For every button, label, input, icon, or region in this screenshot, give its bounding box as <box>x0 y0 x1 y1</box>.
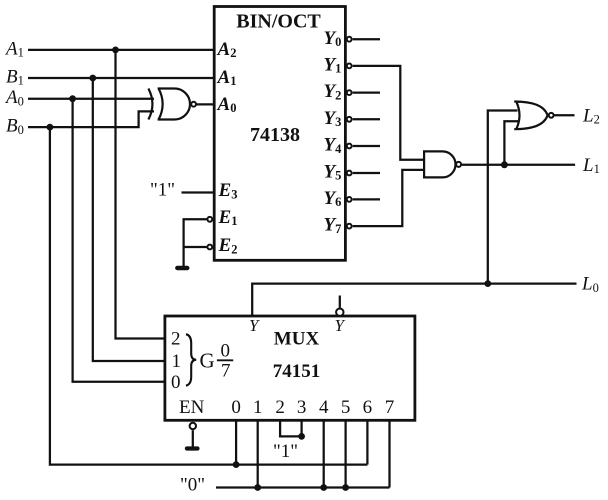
svg-text:EN: EN <box>179 397 205 418</box>
wire B0 column to bottom data bus <box>50 127 368 465</box>
wire zero bus <box>216 486 390 488</box>
svg-text:L2: L2 <box>582 106 600 127</box>
wire A1 to 74138 pin A2 <box>28 49 214 51</box>
wire NOR input 2 from L1 <box>504 121 518 165</box>
svg-text:Y7: Y7 <box>324 215 342 236</box>
bubble pin Y7 <box>347 224 352 229</box>
wire "1" to pin E3 <box>182 191 215 193</box>
XNOR output bubble <box>191 102 196 107</box>
svg-text:3: 3 <box>297 397 307 418</box>
bubble pin Y1 <box>347 64 352 69</box>
XNOR gate U2 <box>148 89 190 120</box>
wire Y4 stub <box>353 145 380 147</box>
wire EN to ground <box>192 430 194 446</box>
bubble pin Y4 <box>347 144 352 149</box>
wire A0 to XNOR input 1 <box>28 98 154 100</box>
svg-text:Y3: Y3 <box>324 108 342 129</box>
svg-text:L0: L0 <box>581 274 599 295</box>
NOR output bubble <box>549 113 554 118</box>
junction D4 on zero bus <box>320 484 327 491</box>
svg-text:2: 2 <box>275 397 285 418</box>
svg-text:Y: Y <box>249 316 260 335</box>
wire pin D6 to B0 bus <box>366 420 368 464</box>
wire Y inverted stub <box>339 296 341 308</box>
svg-text:Y4: Y4 <box>324 135 343 156</box>
svg-text:"1": "1" <box>150 180 175 201</box>
junction D1 on zero bus <box>254 484 261 491</box>
svg-text:"0": "0" <box>180 475 205 496</box>
bubble pin Y0 <box>347 37 352 42</box>
wire pin D1 to zero bus <box>257 420 259 487</box>
wire XNOR output to 74138 pin A0 <box>196 103 214 105</box>
wire pin D2 D3 tie to "1" <box>280 420 302 436</box>
IC U1 74138 box <box>214 7 345 261</box>
junction A0 column <box>69 95 76 102</box>
svg-text:B0: B0 <box>6 116 24 137</box>
wire B0 to XNOR input 2 <box>28 111 154 127</box>
svg-text:7: 7 <box>385 397 395 418</box>
junction B1 column <box>89 75 96 82</box>
wire L0 line from MUX Y output <box>252 284 576 316</box>
svg-text:Y5: Y5 <box>324 161 342 182</box>
svg-text:E3: E3 <box>218 180 238 201</box>
svg-text:4: 4 <box>319 397 329 418</box>
svg-text:Y: Y <box>335 316 346 335</box>
bubble pin Y5 <box>347 171 352 176</box>
wire Y1 to NAND input 1 <box>353 66 424 160</box>
svg-text:Y0: Y0 <box>324 28 342 49</box>
wire NOR input 1 from L0 line <box>488 111 518 284</box>
wire B1 to 74138 pin A1 <box>28 77 214 79</box>
ground below E1 E2 <box>177 266 187 270</box>
svg-text:E2: E2 <box>218 235 238 256</box>
brace for G select group <box>186 334 196 386</box>
svg-text:0: 0 <box>171 372 181 393</box>
svg-text:74138: 74138 <box>250 124 300 146</box>
svg-text:G: G <box>200 349 215 373</box>
wire Y6 stub <box>353 198 380 200</box>
svg-text:5: 5 <box>341 397 351 418</box>
svg-text:7: 7 <box>221 361 231 382</box>
svg-text:B1: B1 <box>6 66 24 87</box>
svg-text:L1: L1 <box>582 155 600 176</box>
svg-text:Y1: Y1 <box>324 55 342 76</box>
wire A1 column to MUX select 2 <box>116 50 165 339</box>
junction D0 on B0 bus <box>233 461 240 468</box>
wire NAND output L1 line <box>462 164 575 166</box>
bubble pin EN <box>190 423 196 429</box>
svg-text:6: 6 <box>363 397 373 418</box>
ground below EN <box>187 446 198 450</box>
svg-text:A2: A2 <box>217 39 237 60</box>
svg-text:BIN/OCT: BIN/OCT <box>236 10 321 32</box>
svg-text:"1": "1" <box>273 441 298 462</box>
bubble pin Y6 <box>347 197 352 202</box>
NAND gate U3 <box>424 151 455 177</box>
wire A0 column to MUX select 0 <box>73 99 165 382</box>
svg-text:2: 2 <box>171 329 181 350</box>
svg-text:74151: 74151 <box>273 361 321 382</box>
svg-text:E1: E1 <box>218 207 238 228</box>
svg-text:1: 1 <box>172 351 182 372</box>
wire NOR output to L2 <box>554 114 575 116</box>
svg-text:1: 1 <box>253 397 263 418</box>
svg-text:Y6: Y6 <box>324 188 342 209</box>
IC U5 74151 MUX box <box>165 316 415 420</box>
svg-text:0: 0 <box>231 397 241 418</box>
svg-text:A0: A0 <box>4 87 24 108</box>
wire pin D7 to zero bus <box>388 420 390 487</box>
svg-text:A1: A1 <box>4 38 24 59</box>
bubble pin Y3 <box>347 117 352 122</box>
svg-text:A1: A1 <box>217 67 237 88</box>
wire E1 E2 common to ground <box>184 219 207 266</box>
junction A1 column <box>112 47 119 54</box>
wire pin D4 to zero bus <box>323 420 325 487</box>
NOR gate U4 <box>514 102 547 130</box>
wire Y5 stub <box>353 172 380 174</box>
junction D5 on zero bus <box>342 484 349 491</box>
wire Y7 to NAND input 2 <box>353 170 424 226</box>
bubble pin E2 <box>207 245 212 250</box>
junction B0 column <box>47 124 54 131</box>
wire B1 column to MUX select 1 <box>93 78 165 361</box>
NAND output bubble <box>456 162 461 167</box>
bubble pin Y inverted <box>336 309 343 316</box>
wire Y0 stub <box>353 38 380 40</box>
svg-text:0: 0 <box>221 341 231 362</box>
bubble pin Y2 <box>347 90 352 95</box>
junction L0 to NOR branch <box>484 280 491 287</box>
wire Y3 stub <box>353 118 380 120</box>
wire Y2 stub <box>353 91 380 93</box>
wire pin D0 to bus <box>235 420 237 464</box>
fraction bar <box>217 359 233 361</box>
wire pin D5 to zero bus <box>344 420 346 487</box>
svg-text:MUX: MUX <box>274 329 320 350</box>
junction L1 to NOR input 2 <box>501 161 508 168</box>
svg-text:A0: A0 <box>217 94 237 115</box>
bubble pin E1 <box>207 217 212 222</box>
svg-text:Y2: Y2 <box>324 81 342 102</box>
junction D3 tie <box>298 433 305 440</box>
